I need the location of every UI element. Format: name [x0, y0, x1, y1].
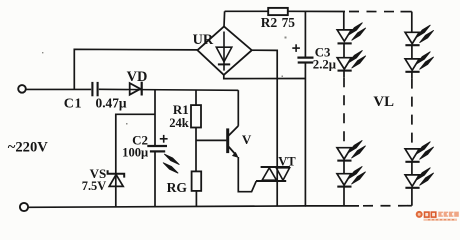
- label C2: [132, 132, 148, 147]
- wire: col1 dashed continuation: [343, 71, 345, 148]
- zener diode VS: [108, 170, 125, 186]
- label 100u: [122, 146, 148, 160]
- wire: D1-D2: [343, 43, 345, 57]
- wire: zener branch stub: [116, 114, 155, 173]
- svg-text:2.2μ: 2.2μ: [313, 57, 337, 71]
- wire: col1 top lead: [343, 12, 345, 30]
- photoresistor RG: [192, 171, 202, 191]
- label 2.2u: [313, 57, 337, 71]
- label R1: [173, 102, 189, 117]
- wire: bridge top to rail: [223, 11, 226, 27]
- capacitor C3: [297, 58, 313, 63]
- LED D5: [405, 32, 420, 45]
- light arrows D2: [348, 50, 366, 68]
- plus sign C2: [160, 135, 168, 143]
- thyristor VT: [256, 167, 290, 181]
- light arrows D1: [348, 23, 366, 41]
- label R2 75: [261, 15, 295, 30]
- light arrows D6: [416, 52, 434, 70]
- LED D8: [405, 175, 420, 188]
- wire: D5-D6: [411, 45, 413, 59]
- wire: top AC line: [26, 89, 239, 90]
- label VS: [90, 166, 107, 181]
- wire: col2 bottom lead: [411, 188, 413, 206]
- label RG: [167, 180, 188, 195]
- light arrows into RG: [163, 154, 179, 173]
- label V: [242, 132, 252, 147]
- wire: bridge bottom to C3 negative: [224, 75, 305, 79]
- svg-text:UR: UR: [193, 32, 214, 48]
- svg-text:~220V: ~220V: [8, 140, 48, 156]
- wire: C3 negative down to bottom rail: [304, 63, 306, 206]
- resistor R1: [191, 105, 201, 127]
- light arrows D7: [416, 142, 434, 160]
- wire: D3-D4: [343, 161, 345, 174]
- wire: top rail: [225, 10, 412, 12]
- wire: col2 dashed continuation: [411, 72, 413, 149]
- LED D1: [337, 30, 352, 44]
- svg-text:7.5V: 7.5V: [82, 179, 106, 193]
- light arrows D4: [348, 166, 366, 184]
- wire: col1 bottom lead: [343, 187, 345, 206]
- wire: VT cathode to bottom rail: [276, 167, 278, 206]
- wire: D7-D8: [411, 162, 413, 175]
- capacitor C2: [147, 146, 167, 151]
- watermark logo: [416, 211, 459, 221]
- scan specks: [42, 37, 287, 125]
- light arrows D8: [416, 168, 434, 186]
- svg-text:RG: RG: [167, 180, 188, 195]
- label UR: [193, 32, 214, 48]
- LED D7: [405, 149, 420, 162]
- svg-text:V: V: [242, 132, 252, 147]
- capacitor C1: [92, 82, 97, 96]
- label VT: [278, 154, 296, 168]
- svg-text:VD: VD: [127, 69, 148, 85]
- LED D4: [337, 174, 352, 187]
- svg-text:R1: R1: [173, 102, 189, 117]
- wire: emitter down to gate run: [238, 157, 256, 192]
- wire: C3 branch from rail: [304, 11, 306, 57]
- terminal: top AC input: [18, 85, 26, 93]
- wire: C2 branch drop: [154, 89, 156, 146]
- LED D6: [405, 59, 420, 72]
- diode VD: [130, 82, 142, 96]
- label VD: [127, 69, 148, 85]
- wire: R1 to RG: [195, 128, 197, 172]
- label ~220V: [8, 140, 48, 156]
- terminal: bottom AC input: [20, 203, 28, 211]
- label C3: [315, 45, 331, 59]
- transistor V: [228, 126, 239, 158]
- wire: bottom rail left: [28, 206, 307, 207]
- wire: zener to bottom rail: [115, 174, 117, 207]
- svg-text:C1: C1: [64, 97, 82, 112]
- light arrows D5: [416, 25, 434, 43]
- wire: bottom rail right: [305, 205, 411, 207]
- label C1 0.47u: [64, 96, 127, 112]
- wire: C2 to bottom rail: [154, 151, 156, 207]
- svg-text:VT: VT: [278, 154, 296, 168]
- wire: collector up to AC node: [237, 90, 239, 126]
- plus sign C3: [292, 44, 300, 52]
- resistor R2: [268, 8, 288, 15]
- wire: RG to bottom rail: [195, 191, 197, 207]
- bridge rectifier UR: [197, 27, 251, 75]
- wire: bridge right to VT anode: [252, 50, 277, 167]
- label 24k: [169, 116, 189, 130]
- light arrows D3: [348, 140, 366, 158]
- wire: base wire: [196, 139, 226, 141]
- svg-text:VL: VL: [373, 94, 394, 110]
- svg-text:0.47μ: 0.47μ: [96, 96, 127, 111]
- wire: R1/RG branch top: [195, 90, 197, 105]
- LED D3: [337, 148, 352, 161]
- wire: col2 top lead: [411, 12, 413, 32]
- label VL: [373, 94, 394, 110]
- svg-text:100μ: 100μ: [122, 146, 148, 160]
- LED D2: [337, 58, 352, 71]
- svg-text:75: 75: [282, 15, 296, 30]
- svg-text:24k: 24k: [169, 116, 189, 130]
- label 7.5V: [82, 179, 106, 193]
- wire: riser to bridge: [74, 49, 197, 89]
- svg-text:R2: R2: [261, 15, 278, 30]
